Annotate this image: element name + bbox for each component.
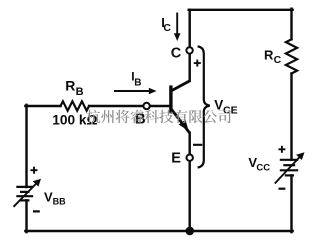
label I_B	[131, 69, 141, 88]
plus sign V_CC	[278, 146, 285, 153]
svg-text:CE: CE	[223, 104, 238, 116]
plus sign V_CE top	[194, 60, 201, 67]
label V_CC	[248, 155, 270, 174]
resistor R_B zigzag	[61, 101, 90, 110]
wire collector vertical below node C	[188, 54, 190, 81]
current arrow I_C	[174, 13, 181, 42]
resistor R_C zigzag	[286, 39, 297, 73]
svg-text:100 kΩ: 100 kΩ	[52, 112, 97, 127]
node E circle	[187, 155, 193, 161]
wire left vertical upper	[25, 105, 27, 187]
label V_BB	[44, 189, 66, 206]
minus sign V_BB	[33, 210, 40, 212]
transistor Q1 base bar	[169, 85, 172, 113]
node B circle	[143, 103, 149, 109]
minus sign V_CE bottom	[193, 144, 202, 146]
wire base horizontal left segment	[25, 105, 60, 107]
svg-text:B: B	[134, 77, 141, 88]
junction dot bottom	[186, 227, 195, 236]
battery V_BB variable arrow	[14, 179, 42, 207]
current arrow I_B	[114, 88, 157, 95]
svg-text:BB: BB	[53, 197, 66, 207]
wire right vertical upper	[290, 9, 292, 40]
wire collector vertical above node C	[188, 10, 190, 47]
plus sign V_BB	[31, 167, 38, 174]
wire base node B to transistor	[150, 105, 170, 107]
svg-text:C: C	[274, 54, 282, 66]
label V_CE	[214, 98, 237, 117]
battery V_CC plates	[280, 160, 298, 176]
wire emitter vertical below node E	[188, 161, 190, 231]
watermark text	[86, 110, 230, 124]
wire base horizontal to node B	[89, 105, 143, 107]
wire right vertical middle	[290, 74, 292, 160]
transistor Q1 emitter line	[171, 109, 190, 133]
svg-text:V: V	[214, 98, 223, 113]
wire bottom horizontal	[25, 230, 292, 232]
svg-text:R: R	[65, 77, 75, 93]
minus sign V_CC	[279, 188, 286, 190]
wire right vertical lower	[290, 175, 292, 232]
svg-text:B: B	[76, 86, 84, 98]
wire top horizontal	[189, 9, 293, 11]
svg-text:C: C	[171, 46, 182, 62]
node C circle	[186, 47, 192, 53]
label R_B	[65, 77, 83, 98]
label R_C	[264, 48, 282, 66]
wire emitter vertical above node E	[188, 133, 190, 155]
transistor Q1 emitter arrowhead	[179, 120, 189, 131]
battery V_BB plates	[16, 187, 33, 201]
svg-text:CC: CC	[256, 163, 270, 174]
svg-text:E: E	[171, 151, 181, 167]
label I_C	[161, 15, 171, 34]
brace V_CE	[198, 46, 210, 167]
battery V_CC variable arrow	[275, 152, 305, 183]
svg-text:C: C	[163, 22, 171, 34]
svg-text:R: R	[264, 48, 274, 63]
transistor Q1 collector line	[171, 81, 190, 91]
wire left vertical lower	[25, 200, 27, 232]
